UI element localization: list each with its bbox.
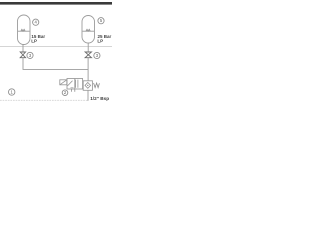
directional valve 2 body [67,79,83,90]
label 25 Bar LP [97,34,111,43]
wire valve 3 down then right to junction [23,58,88,70]
label 15 Bar LP [31,34,45,44]
wire right valve down to coupling [87,58,89,81]
item number 1 [9,89,15,95]
accumulator 4 (15 Bar LP vessel) [18,15,31,45]
wire coupling down to pipe [87,90,89,101]
coupling block 1/2in Bsp [83,81,92,91]
shut-off valve 3 (left) [20,52,25,58]
wire accumulator 5 to right valve [87,43,89,52]
pipe run (faint) [0,99,88,101]
svg-text:LP: LP [97,38,103,43]
wire accumulator 4 to valve 3 [22,45,24,53]
item number (right valve) [94,52,100,58]
accumulator 5 (25 Bar LP vessel) [82,16,95,44]
pipe run upper (faint) [0,46,112,48]
shut-off valve (right, item 3) [85,52,91,58]
solenoid coil of valve 2 [60,80,67,85]
exhaust ports of valve 2 [72,89,75,92]
item number 5 [98,18,104,24]
item number 2 [62,90,68,96]
item number 3 [27,52,33,58]
svg-text:1/2" Bsp: 1/2" Bsp [90,96,109,101]
item number 4 [33,19,39,25]
return spring of valve 2 [94,83,100,88]
svg-text:LP: LP [31,39,37,44]
